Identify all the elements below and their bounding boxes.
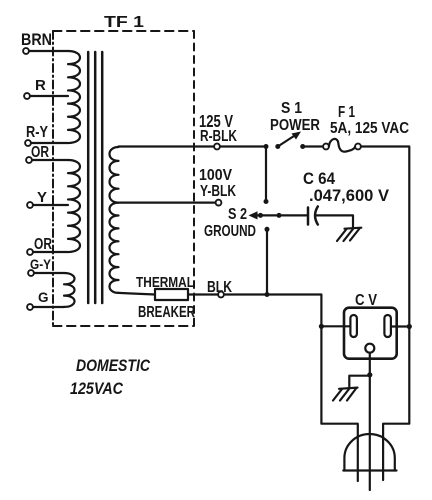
capacitor C64 right plate: [315, 207, 318, 225]
terminal 100V Y-BLK: [216, 200, 222, 206]
connector CV ground pin: [365, 344, 374, 353]
thermal breaker body: [155, 289, 188, 300]
wire ground pin down to plug center prong: [369, 353, 371, 490]
switch S2 top contact: [264, 199, 269, 204]
junction ground branch: [367, 372, 372, 377]
wire R tap: [30, 95, 68, 97]
junction CV left: [319, 324, 324, 329]
switch S1 left contact: [275, 144, 280, 149]
connector CV body: [344, 308, 397, 359]
svg-text:OR: OR: [34, 236, 52, 253]
svg-text:5A, 125 VAC: 5A, 125 VAC: [330, 120, 409, 137]
wire S2 bottom contact to BLK junction: [266, 231, 268, 295]
terminal OR upper: [26, 157, 32, 163]
connector CV left slot: [350, 315, 357, 337]
svg-text:BRN: BRN: [21, 31, 52, 49]
wire R-Y tap: [31, 142, 68, 144]
junction BLK / S2 return: [265, 292, 270, 297]
svg-text:R-Y: R-Y: [26, 124, 48, 141]
wire OR upper tap: [32, 159, 68, 161]
wire G-Y tap: [34, 272, 64, 274]
svg-text:.047,600 V: .047,600 V: [309, 187, 389, 205]
switch S1 right contact: [300, 144, 305, 149]
terminal Y: [27, 202, 33, 208]
svg-text:G: G: [38, 290, 49, 305]
terminal R: [24, 93, 30, 99]
svg-text:G-Y: G-Y: [30, 256, 52, 272]
svg-text:DOMESTIC: DOMESTIC: [76, 357, 151, 375]
wire BLK from breaker to plug left prong: [188, 295, 358, 482]
svg-text:125VAC: 125VAC: [70, 380, 124, 398]
svg-text:S 2: S 2: [228, 206, 247, 223]
primary winding 3 (G-Y/G): [64, 273, 75, 307]
svg-text:BREAKER: BREAKER: [138, 304, 195, 321]
secondary winding upper (125V): [110, 147, 119, 203]
transformer core: [87, 52, 90, 303]
svg-text:TF 1: TF 1: [104, 14, 144, 31]
svg-text:R: R: [35, 77, 46, 94]
junction 125V / S1 / S2 feed: [264, 144, 269, 149]
terminal OR lower: [27, 249, 33, 255]
junction CV right: [407, 324, 412, 329]
secondary winding lower (100V): [110, 203, 119, 293]
wire fuse to right rail and down to plug right prong: [361, 147, 409, 481]
svg-text:F 1: F 1: [338, 104, 355, 121]
terminal G-Y: [28, 270, 34, 276]
wire BRN tap: [29, 50, 68, 52]
wire CV left lead: [321, 325, 350, 327]
terminal BRN: [23, 48, 29, 54]
primary winding 1 (BRN/R/R-Y): [68, 51, 80, 143]
wire capacitor to ground: [316, 215, 354, 227]
svg-text:Y: Y: [37, 189, 47, 206]
switch S1 blade: [278, 135, 296, 147]
primary winding 2 (OR/Y/OR): [68, 160, 80, 252]
wire S1 to fuse: [303, 145, 324, 147]
wire junction down to S2 top contact: [265, 147, 267, 200]
plug body dome: [344, 434, 394, 470]
wire 100V from secondary to open terminal: [119, 202, 216, 204]
svg-text:C 64: C 64: [303, 170, 336, 188]
svg-text:S 1: S 1: [281, 100, 302, 117]
wire secondary bottom to thermal breaker: [119, 293, 156, 295]
transformer TF1 dashed enclosure: [53, 30, 194, 32]
terminal BLK: [218, 292, 224, 298]
ground symbol near C64: [337, 228, 361, 241]
fuse F1: [323, 144, 329, 150]
terminal R-Y: [25, 140, 31, 146]
svg-text:R-BLK: R-BLK: [200, 128, 237, 145]
capacitor C64 left plate: [307, 208, 310, 225]
svg-text:POWER: POWER: [270, 117, 320, 134]
terminal G: [27, 304, 33, 310]
wire 125V from secondary to S1 junction: [119, 145, 267, 147]
svg-text:GROUND: GROUND: [204, 223, 256, 240]
wire OR lower tap: [33, 251, 68, 253]
terminal 125V R-BLK: [214, 144, 220, 150]
switch S2 bottom contact: [265, 227, 270, 232]
wire CV right lead: [391, 325, 409, 327]
ground symbol near CV: [333, 388, 358, 401]
svg-text:100V: 100V: [199, 167, 232, 184]
wire G tap: [33, 306, 64, 308]
svg-text:OR: OR: [31, 144, 49, 161]
switch S2 wiper arm: [254, 214, 309, 216]
svg-text:Y-BLK: Y-BLK: [200, 183, 236, 200]
connector CV right slot: [384, 315, 391, 337]
wire Y tap: [33, 204, 68, 206]
wire ground branch: [349, 376, 370, 387]
